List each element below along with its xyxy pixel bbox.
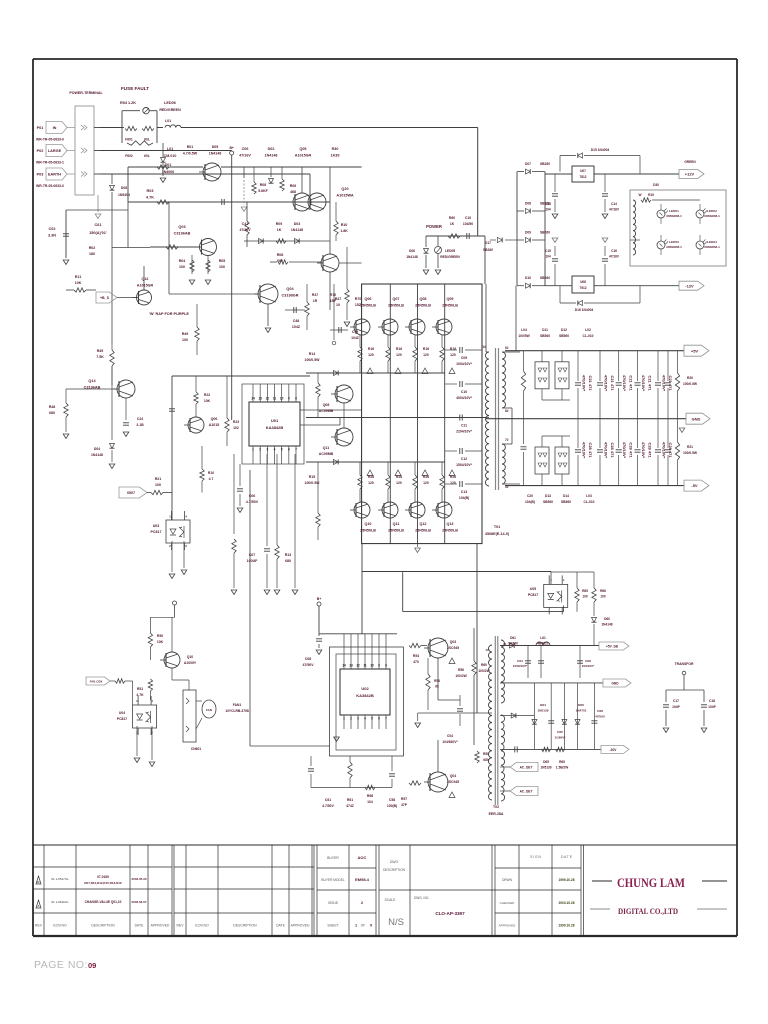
svg-text:SHEET: SHEET: [327, 924, 338, 928]
svg-text:REV: REV: [177, 924, 185, 928]
svg-text:DESCRIPTION: DESCRIPTION: [383, 868, 405, 872]
svg-text:4.7/0.5W: 4.7/0.5W: [183, 152, 198, 156]
svg-text:C08: C08: [305, 657, 311, 661]
svg-text:WR-TR-05-0633-0: WR-TR-05-0633-0: [36, 184, 64, 188]
svg-text:REV: REV: [35, 924, 43, 928]
svg-text:D64: D64: [540, 703, 546, 707]
svg-text:RED/GREEN: RED/GREEN: [440, 255, 460, 259]
svg-text:-12V: -12V: [685, 283, 694, 288]
svg-text:C02: C02: [49, 227, 56, 231]
svg-text:4.7K: 4.7K: [146, 196, 154, 200]
svg-text:120: 120: [396, 481, 402, 485]
svg-text:4: 4: [151, 699, 153, 703]
svg-text:PAGE NO:: PAGE NO:: [34, 959, 88, 971]
svg-text:D10: D10: [525, 276, 531, 280]
svg-text:C28 471: C28 471: [668, 442, 673, 458]
svg-text:30BGRM-1: 30BGRM-1: [704, 245, 720, 249]
svg-text:1999.10.28: 1999.10.28: [559, 878, 575, 882]
svg-text:R65: R65: [559, 760, 565, 764]
svg-text:R56: R56: [458, 668, 464, 672]
svg-text:2204/10V*: 2204/10V*: [456, 430, 473, 434]
svg-text:104/630V*: 104/630V*: [442, 740, 458, 744]
svg-text:P03: P03: [37, 173, 44, 177]
svg-text:R10: R10: [341, 223, 348, 227]
svg-text:F601: F601: [125, 138, 133, 142]
svg-text:474Z: 474Z: [346, 804, 354, 808]
svg-text:470/10V*: 470/10V*: [622, 442, 627, 459]
svg-text:1K: 1K: [277, 228, 282, 232]
svg-text:4B0612: 4B0612: [537, 642, 548, 646]
svg-text:POWER-TERMINAL: POWER-TERMINAL: [69, 91, 103, 95]
svg-text:D15 1N4004: D15 1N4004: [591, 148, 610, 152]
svg-text:Q06: Q06: [365, 297, 372, 301]
svg-text:470/10V*: 470/10V*: [641, 442, 646, 459]
svg-text:TRANSFOR: TRANSFOR: [675, 662, 694, 666]
svg-text:R70: R70: [355, 297, 362, 301]
svg-text:PC817: PC817: [528, 593, 538, 597]
svg-text:104(B): 104(B): [525, 500, 535, 504]
svg-text:D04: D04: [94, 447, 100, 451]
svg-text:Q11: Q11: [393, 522, 400, 526]
svg-text:Q04: Q04: [450, 774, 457, 778]
svg-text:B+: B+: [229, 146, 233, 150]
svg-text:APPROVED: APPROVED: [499, 924, 517, 928]
svg-text:Q12: Q12: [142, 277, 149, 281]
svg-text:R45: R45: [97, 349, 104, 353]
svg-text:47/16V: 47/16V: [609, 208, 620, 212]
svg-text:1N4148: 1N4148: [601, 623, 612, 627]
svg-text:5: 5: [371, 717, 373, 721]
svg-text:P01: P01: [37, 126, 44, 130]
svg-text:4.7/50V: 4.7/50V: [322, 804, 334, 808]
svg-text:100: 100: [155, 483, 161, 487]
svg-text:POWER: POWER: [426, 224, 442, 229]
svg-text:C04: C04: [447, 734, 453, 738]
svg-text:680: 680: [49, 411, 55, 415]
svg-text:CHANGE-VALUE Q01,10: CHANGE-VALUE Q01,10: [85, 900, 122, 904]
svg-text:DWG: DWG: [390, 860, 399, 864]
svg-text:+B_S: +B_S: [100, 296, 110, 300]
svg-text:2: 2: [169, 544, 171, 548]
svg-text:01 1-0616UL: 01 1-0616UL: [51, 900, 69, 904]
svg-text:A1015GR: A1015GR: [295, 154, 312, 158]
svg-text:3: 3: [185, 544, 187, 548]
svg-text:C21 471: C21 471: [668, 375, 673, 391]
svg-text:8: 8: [385, 664, 387, 668]
svg-text:09: 09: [88, 961, 96, 970]
svg-text:EM98.4: EM98.4: [355, 877, 370, 882]
svg-text:150(A)'01': 150(A)'01': [89, 231, 107, 235]
svg-text:OF: OF: [361, 924, 365, 928]
svg-text:CL-010: CL-010: [584, 500, 595, 504]
svg-text:DESCRIPTION: DESCRIPTION: [91, 924, 115, 928]
svg-text:R22: R22: [204, 393, 210, 397]
svg-text:Q10: Q10: [187, 655, 194, 659]
svg-text:C64: C64: [517, 659, 523, 663]
svg-text:ECN NO: ECN NO: [53, 924, 67, 928]
svg-text:U01: U01: [271, 418, 279, 423]
svg-text:R61: R61: [347, 798, 353, 802]
svg-text:100: 100: [219, 265, 225, 269]
svg-text:1R: 1R: [313, 299, 318, 303]
svg-text:C10: C10: [461, 390, 467, 394]
svg-text:C20: C20: [527, 494, 533, 498]
svg-text:D09: D09: [525, 231, 531, 235]
svg-text:EARTH: EARTH: [48, 173, 61, 177]
svg-text:100/5W: 100/5W: [518, 334, 530, 338]
svg-text:Q20: Q20: [341, 187, 348, 191]
svg-text:U08: U08: [580, 280, 586, 284]
svg-text:7: 7: [295, 448, 297, 452]
svg-text:10: 10: [280, 397, 284, 401]
svg-text:FUSE FAULT: FUSE FAULT: [121, 86, 149, 91]
svg-text:30BGRM-1: 30BGRM-1: [666, 245, 682, 249]
svg-text:LED04: LED04: [707, 240, 717, 244]
svg-text:470/10V*: 470/10V*: [604, 375, 609, 392]
svg-text:C66: C66: [585, 659, 591, 663]
svg-text:R58: R58: [434, 679, 440, 683]
svg-text:470/10V*: 470/10V*: [622, 375, 627, 392]
svg-text:D02: D02: [268, 147, 275, 151]
svg-text:LED05: LED05: [445, 249, 455, 253]
svg-text:2: 2: [350, 717, 352, 721]
svg-text:104(B): 104(B): [459, 496, 469, 500]
svg-text:CN601: CN601: [191, 747, 201, 751]
svg-text:104: 104: [545, 255, 551, 259]
svg-text:14: 14: [251, 397, 255, 401]
svg-text:CLO-AP-3397: CLO-AP-3397: [435, 911, 465, 916]
svg-text:-30V: -30V: [610, 748, 618, 752]
svg-text:AC_DET: AC_DET: [520, 766, 533, 770]
svg-text:Q05: Q05: [300, 147, 307, 151]
svg-text:R23: R23: [233, 420, 239, 424]
svg-text:47/16V: 47/16V: [239, 228, 251, 232]
svg-text:R07,R10,R12,R15,R16,R19: R07,R10,R12,R15,R16,R19: [84, 881, 122, 885]
svg-text:L61: L61: [540, 636, 546, 640]
svg-text:SCALE: SCALE: [384, 898, 396, 902]
svg-text:25N50LB: 25N50LB: [442, 529, 458, 533]
svg-text:C68: C68: [597, 709, 603, 713]
svg-text:LED06: LED06: [164, 101, 176, 105]
svg-text:1RF: 1RF: [330, 299, 336, 303]
svg-text:1K: 1K: [450, 222, 455, 226]
svg-text:R65: R65: [582, 589, 588, 593]
svg-text:7912: 7912: [579, 286, 586, 290]
svg-text:1N4148: 1N4148: [265, 154, 278, 158]
svg-text:470/10V*: 470/10V*: [582, 442, 587, 459]
svg-text:RED/GREEN: RED/GREEN: [159, 108, 181, 112]
svg-text:U03: U03: [153, 524, 160, 528]
svg-text:1.8K: 1.8K: [340, 229, 348, 233]
svg-text:68: 68: [435, 685, 439, 689]
svg-text:1N5139: 1N5139: [540, 766, 551, 770]
svg-text:SB560: SB560: [559, 334, 569, 338]
svg-text:R26: R26: [368, 475, 374, 479]
svg-text:1/160V*: 1/160V*: [554, 736, 566, 740]
svg-text:8: 8: [295, 397, 297, 401]
svg-text:25N50LB: 25N50LB: [360, 304, 376, 308]
svg-text:N/S: N/S: [388, 917, 404, 928]
svg-text:R30: R30: [332, 147, 339, 151]
svg-text:R68: R68: [367, 794, 373, 798]
svg-text:30BGRM-1: 30BGRM-1: [704, 214, 720, 218]
svg-text:100/2W: 100/2W: [455, 674, 467, 678]
svg-text:C24: C24: [137, 417, 143, 421]
svg-text:1#: 1#: [482, 345, 486, 349]
svg-text:+12V: +12V: [685, 172, 695, 177]
svg-text:120: 120: [396, 353, 402, 357]
svg-text:LED03: LED03: [669, 240, 679, 244]
svg-text:R19: R19: [648, 193, 654, 197]
svg-text:FAN: FAN: [206, 708, 212, 712]
svg-text:D05: D05: [212, 145, 219, 149]
svg-text:7: 7: [385, 717, 387, 721]
svg-text:C28 471: C28 471: [588, 442, 593, 458]
svg-text:Q13: Q13: [447, 522, 454, 526]
svg-text:12: 12: [266, 397, 270, 401]
svg-text:D03: D03: [294, 222, 300, 226]
svg-text:SB260: SB260: [540, 162, 550, 166]
svg-text:Q04: Q04: [286, 287, 294, 291]
svg-text:D14: D14: [563, 494, 569, 498]
svg-text:AC09MB: AC09MB: [319, 452, 334, 456]
svg-text:2SC945: 2SC945: [447, 780, 459, 784]
svg-text:470/10V*: 470/10V*: [604, 442, 609, 459]
svg-text:SB560: SB560: [561, 500, 571, 504]
svg-text:R47: R47: [312, 293, 318, 297]
svg-text:U04: U04: [119, 711, 125, 715]
svg-text:R21: R21: [155, 477, 162, 481]
svg-text:R04 1.2K: R04 1.2K: [120, 101, 136, 105]
svg-text:C21 471: C21 471: [648, 375, 653, 391]
svg-text:1: 1: [355, 924, 357, 928]
svg-text:Q03: Q03: [178, 225, 185, 229]
svg-text:468: 468: [290, 190, 296, 194]
svg-text:25N50LB: 25N50LB: [415, 529, 431, 533]
svg-text:2003.06.07: 2003.06.07: [131, 900, 146, 904]
svg-text:60L: 60L: [144, 154, 150, 158]
svg-text:R20: R20: [687, 376, 693, 380]
svg-text:07-0189: 07-0189: [97, 875, 109, 879]
svg-text:9: 9: [288, 397, 290, 401]
svg-text:1N4148: 1N4148: [209, 152, 222, 156]
svg-text:C13: C13: [461, 490, 467, 494]
svg-text:100: 100: [179, 265, 185, 269]
svg-text:CL-010: CL-010: [583, 334, 594, 338]
svg-text:120: 120: [368, 481, 374, 485]
svg-text:D60: D60: [604, 617, 610, 621]
svg-text:25N50LB: 25N50LB: [442, 304, 458, 308]
svg-text:R49: R49: [182, 332, 189, 336]
svg-text:47/50V: 47/50V: [302, 663, 314, 667]
svg-text:L01: L01: [165, 119, 171, 123]
svg-text:104P: 104P: [672, 705, 681, 709]
svg-text:BUYER MODEL: BUYER MODEL: [321, 878, 344, 882]
svg-text:DATE: DATE: [135, 924, 145, 928]
svg-text:D61: D61: [510, 636, 516, 640]
svg-text:10K: 10K: [204, 399, 211, 403]
svg-text:CHECKED: CHECKED: [500, 901, 516, 905]
svg-text:D17: D17: [485, 241, 491, 245]
svg-text:GND: GND: [611, 682, 619, 686]
svg-text:R04: R04: [179, 259, 186, 263]
svg-text:100/0.5W: 100/0.5W: [683, 382, 698, 386]
svg-text:R16: R16: [368, 347, 374, 351]
svg-text:25N50LB: 25N50LB: [388, 529, 404, 533]
svg-text:R16: R16: [396, 347, 402, 351]
svg-text:R13: R13: [285, 553, 292, 557]
svg-text:AC_DET: AC_DET: [520, 790, 533, 794]
svg-text:D12: D12: [561, 328, 567, 332]
svg-text:LARGE: LARGE: [48, 149, 62, 153]
svg-text:R02: R02: [89, 246, 96, 250]
svg-text:1N4148: 1N4148: [91, 453, 103, 457]
svg-text:DESCRIPTION: DESCRIPTION: [233, 924, 257, 928]
svg-text:25N50LB: 25N50LB: [388, 304, 404, 308]
svg-text:1N4148: 1N4148: [406, 255, 418, 259]
svg-text:D65: D65: [543, 760, 549, 764]
svg-text:IN: IN: [53, 126, 57, 130]
svg-text:APPROVED: APPROVED: [151, 924, 170, 928]
svg-text:LED01: LED01: [669, 209, 679, 213]
svg-text:3-1B: 3-1B: [136, 423, 144, 427]
svg-text:C06: C06: [242, 147, 249, 151]
svg-text:2003.10.28: 2003.10.28: [559, 901, 575, 905]
svg-text:12: 12: [356, 664, 360, 668]
svg-text:Q14: Q14: [88, 379, 96, 383]
svg-text:D A T E: D A T E: [561, 855, 572, 859]
svg-text:A1015GR: A1015GR: [137, 284, 154, 288]
svg-text:C61: C61: [325, 798, 331, 802]
svg-text:-5V: -5V: [691, 483, 698, 488]
svg-text:0507: 0507: [127, 491, 135, 495]
svg-text:R60: R60: [481, 663, 487, 667]
svg-text:14: 14: [342, 664, 346, 668]
svg-text:104P: 104P: [708, 705, 717, 709]
svg-text:1004/10V*: 1004/10V*: [456, 362, 473, 366]
svg-text:R70: R70: [330, 293, 336, 297]
svg-text:R16: R16: [423, 347, 429, 351]
svg-text:C3198GR: C3198GR: [282, 294, 299, 298]
svg-text:4508E(E-14-0): 4508E(E-14-0): [485, 532, 510, 536]
svg-text:GND: GND: [692, 416, 701, 421]
svg-text:C3196AB: C3196AB: [174, 232, 191, 236]
svg-text:4: 4: [274, 448, 276, 452]
svg-text:A1015WA: A1015WA: [336, 194, 354, 198]
svg-text:10YCLRB-3798: 10YCLRB-3798: [225, 709, 249, 713]
svg-text:120: 120: [423, 353, 429, 357]
svg-text:R06: R06: [290, 184, 296, 188]
svg-text:SB560: SB560: [540, 334, 550, 338]
svg-text:9#: 9#: [505, 346, 509, 350]
svg-text:10: 10: [370, 664, 374, 668]
svg-text:PC817: PC817: [151, 530, 162, 534]
svg-text:SB560: SB560: [543, 500, 553, 504]
svg-text:104Z: 104Z: [292, 325, 301, 329]
svg-text:T02: T02: [493, 805, 499, 809]
svg-text:Q10: Q10: [365, 522, 372, 526]
svg-text:4.7K: 4.7K: [136, 693, 144, 697]
svg-text:5.6KF: 5.6KF: [258, 189, 268, 193]
svg-text:C28 471: C28 471: [648, 442, 653, 458]
svg-text:D08: D08: [525, 202, 531, 206]
svg-text:3: 3: [357, 717, 359, 721]
svg-text:D30: D30: [653, 183, 659, 187]
svg-text:D13: D13: [545, 494, 551, 498]
svg-text:4.7: 4.7: [209, 477, 214, 481]
svg-text:D07: D07: [525, 162, 531, 166]
svg-text:3.3N: 3.3N: [48, 234, 56, 238]
svg-text:10K: 10K: [157, 640, 164, 644]
svg-text:104: 104: [367, 800, 373, 804]
svg-text:680: 680: [285, 559, 291, 563]
svg-text:B+: B+: [317, 597, 321, 601]
svg-text:01 1-0517UL: 01 1-0517UL: [51, 877, 69, 881]
svg-text:C13: C13: [545, 202, 551, 206]
svg-text:7812: 7812: [579, 175, 586, 179]
svg-text:C61: C61: [95, 223, 102, 227]
svg-text:'W' RAP FOR PURPLE: 'W' RAP FOR PURPLE: [149, 312, 189, 316]
svg-text:5: 5: [281, 448, 283, 452]
svg-text:L02: L02: [585, 328, 591, 332]
svg-text:C17: C17: [673, 699, 679, 703]
svg-text:Q07: Q07: [393, 297, 400, 301]
svg-text:1: 1: [169, 515, 171, 519]
svg-text:1N4148: 1N4148: [291, 228, 303, 232]
svg-text:L04: L04: [521, 328, 527, 332]
svg-text:PC817: PC817: [117, 717, 127, 721]
svg-text:FAN1: FAN1: [233, 703, 242, 707]
svg-text:GREEN: GREEN: [684, 160, 696, 164]
svg-text:Q03: Q03: [450, 640, 457, 644]
svg-text:SB360: SB360: [508, 642, 518, 646]
svg-text:7.5K: 7.5K: [96, 355, 104, 359]
svg-text:1999.10.28: 1999.10.28: [559, 924, 575, 928]
svg-text:470: 470: [413, 660, 419, 664]
svg-text:ISSUE: ISSUE: [328, 901, 339, 905]
svg-text:25N50LB: 25N50LB: [360, 529, 376, 533]
svg-text:R26: R26: [423, 475, 429, 479]
svg-text:100/0.5W: 100/0.5W: [305, 358, 321, 362]
svg-text:6: 6: [288, 448, 290, 452]
svg-text:104: 104: [545, 208, 551, 212]
svg-text:R03: R03: [147, 189, 154, 193]
svg-text:8#: 8#: [505, 409, 509, 413]
svg-text:47/16V: 47/16V: [239, 154, 251, 158]
svg-text:C21 471: C21 471: [629, 375, 634, 391]
svg-text:+5V: +5V: [691, 348, 699, 353]
svg-text:10: 10: [336, 303, 340, 307]
svg-text:1K39: 1K39: [331, 154, 340, 158]
svg-text:1N4701: 1N4701: [576, 709, 587, 713]
svg-text:7#: 7#: [505, 438, 509, 442]
svg-text:1: 1: [252, 448, 254, 452]
svg-text:C48: C48: [293, 319, 300, 323]
svg-text:25N50LB: 25N50LB: [415, 304, 431, 308]
svg-text:DIGITAL CO.,LTD: DIGITAL CO.,LTD: [618, 907, 678, 916]
svg-text:DWG. NO.: DWG. NO.: [414, 896, 429, 900]
svg-text:120: 120: [450, 481, 456, 485]
svg-text:U07: U07: [580, 169, 586, 173]
svg-text:Q06: Q06: [211, 417, 218, 421]
svg-text:102: 102: [233, 426, 239, 430]
svg-text:C10: C10: [465, 216, 471, 220]
svg-text:W: W: [638, 193, 641, 197]
svg-text:100: 100: [182, 338, 188, 342]
svg-text:4004/10V*: 4004/10V*: [456, 396, 473, 400]
svg-text:R16: R16: [450, 347, 456, 351]
svg-text:4.7/50V: 4.7/50V: [246, 500, 259, 504]
